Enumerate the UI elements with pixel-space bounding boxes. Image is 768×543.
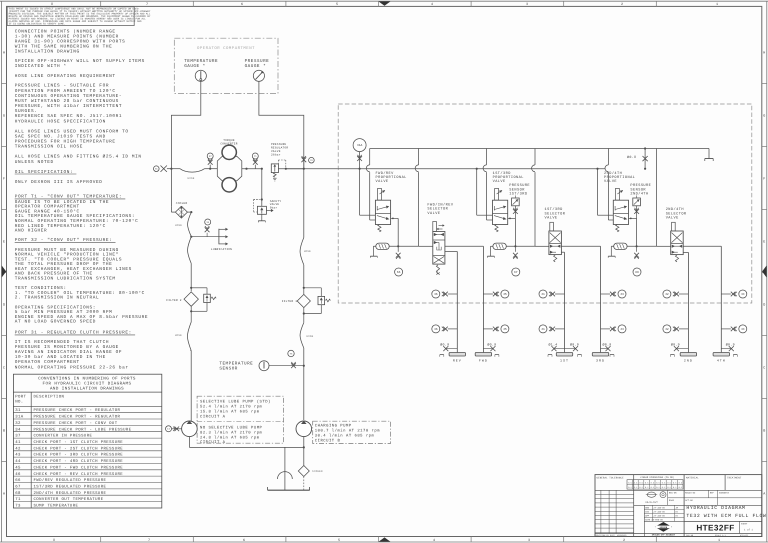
svg-text:1 of 1: 1 of 1 [744, 529, 753, 532]
svg-text:CONVENTIONS IN NUMBERING OF PO: CONVENTIONS IN NUMBERING OF PORTS [38, 377, 136, 382]
wire selector 1ST/3RD outputs [561, 245, 600, 247]
svg-text:GENERAL TOLERANCE: GENERAL TOLERANCE [597, 476, 625, 479]
check port 45 row [483, 293, 493, 295]
svg-text:HOSE: HOSE [188, 177, 195, 180]
svg-text:VALVE: VALVE [493, 179, 506, 184]
svg-text:2. TRANSMISSION IN NEUTRAL: 2. TRANSMISSION IN NEUTRAL [15, 296, 100, 301]
node 37 check port [208, 160, 213, 165]
svg-text:F: F [763, 177, 765, 182]
ECM dashed enclosure box [338, 104, 752, 303]
sump tank [268, 489, 310, 491]
wire bus drop FWD/REV [369, 149, 371, 165]
svg-text:D: D [3, 303, 5, 308]
svg-text:30.4 l/min AT 685 rpm: 30.4 l/min AT 685 rpm [315, 433, 375, 438]
svg-text:Ø0.8: Ø0.8 [627, 155, 636, 160]
svg-text:Ø0.9: Ø0.9 [570, 343, 579, 347]
svg-text:Ø0.9: Ø0.9 [671, 343, 680, 347]
svg-text:45: 45 [503, 328, 507, 331]
check port 44 row [721, 328, 731, 330]
svg-text:27-JAN-99: 27-JAN-99 [654, 506, 666, 509]
sheet outer border [0, 0, 768, 2]
svg-text:TRANSMISSION OIL HOSE: TRANSMISSION OIL HOSE [15, 145, 83, 150]
svg-text:INSTALLATION DRAWING: INSTALLATION DRAWING [15, 50, 80, 55]
pump P2 charging [296, 421, 312, 437]
centering marks [379, 1, 391, 5]
wire main line to gauge junction [278, 168, 303, 170]
svg-text:43: 43 [620, 293, 624, 296]
clutch 1ST [556, 353, 572, 357]
svg-text:REV: REV [453, 358, 462, 362]
node 71 check port [253, 160, 258, 165]
wire main supply line [167, 168, 180, 170]
clutch FWD [475, 353, 491, 357]
wire bus drop 1ST/3RD [486, 149, 488, 165]
clutch column 4TH [720, 246, 722, 352]
clutch 4TH [713, 353, 729, 357]
svg-text:28bar: 28bar [271, 153, 281, 157]
svg-text:G: G [3, 114, 5, 119]
wire selector feed drop FWD/REV [418, 149, 420, 165]
svg-text:C: C [763, 366, 765, 371]
wire selector FWD outputs [445, 245, 484, 247]
svg-text:73: 73 [15, 504, 21, 509]
check port 46 row [448, 328, 458, 330]
svg-text:0.2: 0.2 [667, 486, 670, 489]
svg-text:SCALE 1:1: SCALE 1:1 [715, 534, 726, 537]
svg-text:IT IS USERS OBLIGATION TO VERI: IT IS USERS OBLIGATION TO VERIFY SAME. [9, 23, 66, 26]
svg-text:31A: 31A [357, 144, 363, 147]
wire pump suction manifold [188, 437, 190, 448]
svg-text:HOSE: HOSE [175, 224, 182, 227]
svg-text:HARDNESS: HARDNESS [719, 492, 730, 495]
svg-text:H: H [3, 51, 5, 56]
svg-text:DESCRIPTION: DESCRIPTION [34, 395, 65, 400]
svg-text:2: 2 [621, 2, 623, 7]
svg-text:0.2: 0.2 [645, 486, 648, 489]
wire converter out [242, 168, 262, 170]
clutch 2ND [680, 353, 696, 357]
svg-text:0.2: 0.2 [662, 486, 665, 489]
check port 44 row [721, 293, 731, 295]
svg-text:HYDRAULIC DIAGRAM: HYDRAULIC DIAGRAM [686, 505, 745, 511]
svg-text:MUST WITHSTAND 28 bar CONTINUO: MUST WITHSTAND 28 bar CONTINUOUS [15, 98, 119, 104]
solenoid pin 2ND/4TH [615, 189, 619, 201]
svg-text:FWD: FWD [479, 358, 488, 362]
pilot line 2ND/4TH [611, 245, 627, 247]
check port 42 row [679, 293, 689, 295]
svg-text:42: 42 [665, 328, 669, 331]
svg-text:0.2: 0.2 [639, 486, 642, 489]
orifice 0.8 drop from bus [644, 147, 646, 149]
ground/tank at bus end [708, 149, 710, 159]
svg-text:3RD: 3RD [596, 358, 605, 362]
lubrication manifold [191, 236, 219, 238]
check port 67 [514, 246, 516, 252]
orifice 2ND [676, 348, 688, 350]
svg-text:CAD NR: CAD NR [686, 534, 694, 537]
wire top bus [370, 148, 709, 150]
svg-text:OPERATOR COMPARTMENT: OPERATOR COMPARTMENT [197, 46, 255, 51]
spicer logo [655, 522, 672, 532]
svg-text:6: 6 [241, 2, 243, 7]
check port 43 row [601, 328, 611, 330]
svg-text:PORT: PORT [15, 395, 26, 400]
check port 68 [636, 246, 638, 252]
svg-text:SUMP TEMPERATURE: SUMP TEMPERATURE [34, 504, 79, 509]
note box charging pump [313, 421, 391, 443]
svg-text:ROUGH-NO: ROUGH-NO [685, 492, 696, 495]
svg-text:F: F [3, 177, 5, 182]
svg-text:6: 6 [243, 538, 245, 543]
svg-text:HYDRAULIC HOSE SPECIFICATION: HYDRAULIC HOSE SPECIFICATION [15, 119, 106, 124]
svg-text:27-JAN-99: 27-JAN-99 [654, 510, 666, 513]
check port 46 row [448, 293, 458, 295]
torque converter [217, 156, 242, 180]
pilot line FWD/REV [373, 245, 389, 247]
operator compartment box [174, 38, 278, 93]
svg-text:24.8 l/min AT 685 rpm: 24.8 l/min AT 685 rpm [200, 436, 260, 441]
svg-text:100.7 l/min AT 2170 rpm: 100.7 l/min AT 2170 rpm [315, 428, 380, 433]
svg-text:45: 45 [503, 293, 507, 296]
svg-text:27-JAN-99: 27-JAN-99 [654, 514, 666, 517]
svg-text:Ø0.9: Ø0.9 [726, 343, 735, 347]
clutch column FWD [482, 246, 484, 352]
svg-text:Ø0.9: Ø0.9 [602, 343, 611, 347]
wire temp gauge stem [171, 81, 200, 206]
pump P1 lube [182, 421, 198, 437]
svg-text:Ø1.4: Ø1.4 [548, 343, 557, 347]
svg-text:HOSE: HOSE [306, 335, 313, 338]
wire feed 2ND/4TH [596, 168, 598, 170]
svg-text:44: 44 [741, 328, 745, 331]
svg-text:ONLY DEXRON III IS APPROVED: ONLY DEXRON III IS APPROVED [15, 180, 103, 185]
svg-text:TE32 WITH ECM FULL FLOW: TE32 WITH ECM FULL FLOW [686, 513, 766, 519]
svg-text:NO.: NO. [15, 399, 23, 404]
svg-text:CIRCUIT A: CIRCUIT A [200, 440, 226, 445]
svg-text:67: 67 [514, 271, 518, 274]
svg-text:52.4 l/min AT 2170 rpm: 52.4 l/min AT 2170 rpm [200, 404, 263, 409]
filter 2 bypass valve [191, 287, 207, 289]
svg-text:0.2: 0.2 [673, 486, 676, 489]
svg-text:7: 7 [148, 538, 150, 543]
solenoid pin 1ST/3RD [495, 189, 499, 201]
svg-text:0.2: 0.2 [628, 486, 631, 489]
svg-text:4: 4 [433, 538, 435, 543]
svg-text:AND HIGHER: AND HIGHER [15, 229, 48, 234]
svg-text:SELECTIVE LUBE PUMP (STD): SELECTIVE LUBE PUMP (STD) [200, 399, 271, 404]
clutch column 1ST [564, 252, 566, 352]
check port 42 row [679, 328, 689, 330]
svg-text:0.2: 0.2 [656, 486, 659, 489]
note box selective lube pump [197, 396, 284, 443]
svg-text:REG-NR: REG-NR [669, 491, 677, 494]
orifice 3RD [601, 348, 609, 350]
svg-text:REVISION BY DATE: REVISION BY DATE [596, 534, 616, 537]
svg-text:CIRCUIT B: CIRCUIT B [315, 438, 341, 443]
svg-text:NORMAL OPERATING PRESSURE 22-2: NORMAL OPERATING PRESSURE 22-26 bar [15, 364, 129, 370]
svg-text:ROAD: ROAD [669, 499, 675, 502]
svg-text:PRESSURE, WITH 41bar INTERMITT: PRESSURE, WITH 41bar INTERMITTENT [15, 103, 122, 109]
svg-text:AT NO LOAD GOVERNED SPEED: AT NO LOAD GOVERNED SPEED [15, 320, 96, 325]
svg-text:2: 2 [623, 538, 625, 543]
svg-text:C: C [3, 366, 5, 371]
pilot line 1ST/3RD [491, 245, 507, 247]
damper capsule 1ST/3RD [493, 243, 506, 249]
svg-text:8: 8 [53, 538, 55, 543]
svg-text:0.2: 0.2 [651, 486, 654, 489]
fitting X at main line start [161, 166, 167, 172]
wire selector 2ND/4TH outputs [683, 245, 721, 247]
svg-text:GAUGE *: GAUGE * [184, 63, 206, 69]
proprietary notice box [7, 7, 134, 26]
svg-text:4: 4 [431, 2, 433, 7]
clutch REV [449, 353, 465, 357]
svg-text:82.3 l/min AT 2170 rpm: 82.3 l/min AT 2170 rpm [200, 431, 263, 436]
check port 41 row [555, 328, 565, 330]
svg-text:E: E [763, 240, 765, 245]
svg-text:46: 46 [434, 293, 438, 296]
orifice 1ST [554, 348, 565, 350]
svg-text:FILTER 1: FILTER 1 [282, 300, 297, 303]
wire main line in box [338, 168, 605, 170]
svg-text:7: 7 [146, 2, 148, 7]
wire feed 1ST/3RD [476, 168, 478, 170]
svg-text:CHARGING PUMP: CHARGING PUMP [315, 423, 352, 428]
svg-text:0.2: 0.2 [679, 486, 682, 489]
svg-text:2ND: 2ND [684, 358, 693, 362]
node 31 circle at line start [154, 166, 160, 172]
screen [303, 447, 305, 465]
node 73 check port [291, 363, 296, 368]
svg-text:3: 3 [528, 538, 530, 543]
solenoid pin FWD/REV [378, 189, 382, 201]
port numbering table [13, 374, 161, 508]
svg-text:INDICATED WITH *: INDICATED WITH * [15, 63, 67, 69]
zone ticks [100, 1, 102, 6]
node 31 check port on gauge line [303, 157, 305, 169]
svg-text:VALVE: VALVE [604, 179, 617, 184]
check port 43 row [601, 293, 611, 295]
clutch 3RD [592, 353, 608, 357]
wire pressure gauge stem [259, 81, 304, 168]
svg-text:1ST/3RD: 1ST/3RD [509, 191, 527, 196]
check port 45 row [483, 328, 493, 330]
prop valve 1ST/3RD body [493, 200, 508, 224]
svg-text:41: 41 [541, 328, 545, 331]
svg-text:APPROVED: APPROVED [617, 534, 627, 537]
svg-text:HOSE LINE OPERATING REQUIREMEN: HOSE LINE OPERATING REQUIREMENT [15, 74, 116, 79]
svg-text:66: 66 [397, 271, 401, 274]
svg-text:SCREEN: SCREEN [312, 470, 323, 473]
svg-text:B: B [3, 429, 5, 434]
title block [595, 475, 762, 537]
svg-text:FOR HYDRAULIC CIRCUIT DIAGRAMS: FOR HYDRAULIC CIRCUIT DIAGRAMS [43, 382, 132, 387]
orifice 4TH [721, 348, 731, 350]
svg-text:4TH: 4TH [717, 358, 726, 362]
svg-text:NO SELECTIVE LUBE PUMP: NO SELECTIVE LUBE PUMP [200, 425, 263, 430]
svg-text:Ø0.9: Ø0.9 [440, 343, 449, 347]
svg-text:VALVE: VALVE [545, 215, 558, 220]
wire cooler to lube junction [188, 212, 192, 237]
clutch column 3RD [600, 246, 602, 352]
svg-text:SENSOR: SENSOR [219, 366, 237, 371]
svg-text:Ø0.9: Ø0.9 [487, 343, 496, 347]
svg-text:D: D [763, 303, 765, 308]
svg-text:SPICER: SPICER [660, 526, 668, 529]
svg-text:B: B [763, 429, 765, 434]
orifice REV [446, 348, 458, 350]
svg-text:2ND/4TH: 2ND/4TH [630, 191, 648, 196]
svg-text:LUBRICATION: LUBRICATION [211, 248, 232, 251]
prop valve FWD/REV body [375, 200, 390, 224]
wire to safety valve [261, 168, 263, 170]
clutch column REV [456, 252, 458, 353]
wire pilot output 2ND/4TH [629, 217, 637, 219]
svg-text:CONVERTER: CONVERTER [220, 142, 237, 145]
check port 41 row [555, 293, 565, 295]
damper capsule 2ND/4TH [614, 243, 627, 249]
svg-text:1: 1 [718, 538, 720, 543]
check port 66 [397, 246, 399, 252]
svg-text:COOLER: COOLER [176, 202, 188, 205]
wire bus drop 2ND/4TH [607, 149, 609, 165]
wire selector feed drop 2ND/4TH [655, 149, 657, 247]
node 14 check port at pump inlet [172, 428, 182, 430]
wire pressure line down [303, 169, 305, 238]
wire feed FWD/REV [359, 168, 361, 170]
wire pilot output 1ST/3RD [508, 217, 516, 219]
svg-text:LINEAR DIMENSIONS (IN MM): LINEAR DIMENSIONS (IN MM) [640, 476, 674, 479]
svg-text:8: 8 [51, 2, 53, 7]
svg-text:43: 43 [620, 328, 624, 331]
wire pilot output FWD/REV [391, 217, 399, 219]
svg-text:41: 41 [541, 293, 545, 296]
svg-text:UNLESS NOTED: UNLESS NOTED [15, 160, 54, 165]
wire selector feed drop 1ST/3RD [534, 149, 536, 165]
wire lube line down [188, 237, 192, 264]
svg-text:1: 1 [716, 2, 718, 7]
svg-text:CIRCUIT A: CIRCUIT A [200, 414, 226, 419]
svg-text:AND INSTALLATION DRAWINGS: AND INSTALLATION DRAWINGS [50, 387, 124, 392]
svg-text:5: 5 [336, 2, 338, 7]
prop valve 2ND/4TH body [613, 200, 628, 224]
svg-text:TRANSMISSION LUBRICATION SYSTE: TRANSMISSION LUBRICATION SYSTEM [15, 277, 116, 282]
clutch column 2ND [687, 252, 689, 352]
svg-text:SHEET: SHEET [741, 523, 748, 526]
svg-text:G: G [763, 114, 765, 119]
svg-text:ACT-NO: ACT-NO [685, 499, 693, 502]
svg-text:VALVE: VALVE [666, 215, 679, 220]
svg-text:5: 5 [338, 538, 340, 543]
svg-text:HOSE: HOSE [304, 250, 311, 253]
svg-text:DD/GL/DVT: DD/GL/DVT [646, 501, 659, 504]
damper capsule FWD/REV [376, 243, 389, 249]
svg-text:DATE 08-FEB-99: DATE 08-FEB-99 [645, 518, 663, 521]
orifice 1ST b [565, 348, 576, 350]
svg-text:15.8 l/min AT 685 rpm: 15.8 l/min AT 685 rpm [200, 409, 260, 414]
filter 1 bypass valve [304, 287, 322, 289]
svg-text:HTE32FF: HTE32FF [740, 534, 748, 537]
svg-text:44: 44 [741, 293, 745, 296]
svg-text:MATERIAL: MATERIAL [686, 476, 699, 479]
svg-text:TREATMENT: TREATMENT [727, 476, 742, 479]
svg-text:42: 42 [665, 293, 669, 296]
node 34 check port [206, 233, 208, 237]
svg-text:SPICER OFF-HIGHWAY: SPICER OFF-HIGHWAY [652, 533, 676, 536]
safety valve 9bar [257, 206, 266, 214]
svg-text:VALVE: VALVE [376, 179, 389, 184]
svg-text:68: 68 [635, 271, 639, 274]
svg-text:FILTER 2: FILTER 2 [166, 299, 181, 302]
svg-text:1ST: 1ST [560, 358, 569, 362]
svg-text:GAUGE *: GAUGE * [245, 63, 267, 69]
svg-text:9bar: 9bar [270, 206, 278, 210]
svg-text:3: 3 [526, 2, 528, 7]
svg-text:E: E [3, 240, 5, 245]
node 31A [359, 140, 361, 169]
svg-text:HOSE: HOSE [175, 334, 182, 337]
svg-text:H: H [763, 51, 765, 56]
orifice FWD [483, 348, 493, 350]
svg-text:HTE32FF: HTE32FF [696, 524, 734, 533]
svg-text:46: 46 [434, 328, 438, 331]
svg-text:VALVE: VALVE [427, 211, 440, 216]
svg-text:0.2: 0.2 [634, 486, 637, 489]
suction strainer [284, 447, 286, 490]
